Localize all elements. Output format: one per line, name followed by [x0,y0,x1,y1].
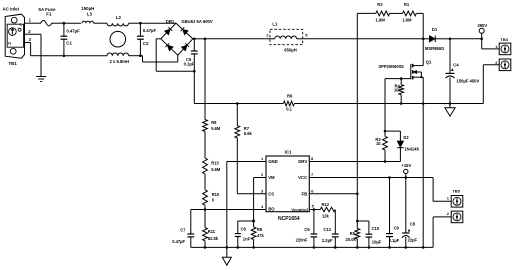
capacitor C4 [446,39,480,104]
svg-text:VM: VM [268,175,275,180]
wire R9 to R13 [204,132,206,159]
node gate network top junction [384,130,387,133]
svg-text:H: H [8,42,11,46]
node Vcontrol junction [313,208,316,211]
resistor R11 [203,210,219,248]
wire FB to compensation [356,194,358,221]
resistor R10 [203,190,220,210]
svg-text:TB5: TB5 [452,189,460,194]
power ground symbol [222,247,231,265]
choke L2 [107,15,129,64]
svg-text:R6: R6 [287,94,293,99]
svg-text:1nF: 1nF [243,237,251,242]
wire bridge minus loop [156,39,194,71]
wire R13 to R10 [204,174,206,190]
wire TB5 pin 1 feed [433,178,451,202]
op-amp IC1 NCP1654 [261,149,315,222]
pin 2 [28,29,31,34]
svg-text:NCP1654: NCP1654 [278,216,300,222]
node rail gnd stem junction [226,246,229,249]
svg-text:R10: R10 [212,192,220,197]
wire shunt rail right [294,103,483,105]
pin 1 [29,17,32,22]
svg-text:TB1: TB1 [9,61,18,66]
svg-text:D1: D1 [432,27,438,32]
svg-text:AC Inlet: AC Inlet [3,7,20,12]
capacitor C2 [137,23,156,56]
svg-text:R5: R5 [350,231,356,236]
resistor R2 [376,2,390,22]
node rail R11 junction [204,246,207,249]
resistor R3 [375,131,387,161]
svg-text:GBU6J 6A 600V: GBU6J 6A 600V [181,19,212,24]
node divider feed junction [204,38,207,41]
svg-text:CS: CS [268,191,274,196]
node C9 junction [388,176,391,179]
wire BO line [191,209,266,211]
wire R1 to switch node [416,13,423,38]
wire Vcontrol pin [309,209,314,211]
capacitor C6 [296,210,318,248]
svg-text:DB1: DB1 [166,19,175,24]
wire FB line [309,193,357,195]
pin 3 [29,37,32,42]
svg-text:Vcontrol: Vcontrol [291,207,308,212]
node BO junction [204,208,207,211]
wire from F1 to node C1 [53,22,64,24]
resistor R9 [203,120,221,132]
svg-text:R13: R13 [211,160,219,165]
svg-text:R2: R2 [377,2,383,7]
wire from C1 to inductor L3 [64,22,81,24]
svg-text:R9: R9 [211,120,217,125]
wire TB3 pin 2 return [483,65,499,104]
svg-text:5.6M: 5.6M [211,167,221,172]
bridge rectifier DB1 [161,19,213,55]
wire FB divider vertical [356,13,358,193]
resistor R13 [203,158,221,174]
node rail R5 junction [356,246,359,249]
diode D1 [423,27,450,51]
svg-text:0.1µF: 0.1µF [184,61,195,66]
resistor R5 [346,221,360,247]
wire DC minus down to shunt rail [194,71,283,103]
node C1 top junction [63,22,66,25]
node VM network junction [252,220,255,223]
svg-text:C7: C7 [180,228,186,233]
svg-text:DRV: DRV [298,159,307,164]
svg-text:5.6M: 5.6M [211,126,221,131]
node rail R8 junction [252,246,255,249]
svg-text:1N4148: 1N4148 [404,147,419,152]
wire bottom ground rail [191,246,433,248]
earth ground [36,77,46,82]
node C2 top junction [139,22,142,25]
wire from L3 to choke L2 [94,22,107,24]
svg-text:FB: FB [301,191,307,196]
node R7 shunt junction [236,102,239,105]
wire gate line [385,78,411,80]
svg-text:C10: C10 [372,226,380,231]
svg-text:MSR860G: MSR860G [425,46,445,51]
connector TB5 [447,189,463,223]
diode D2 [385,131,419,161]
svg-text:C6: C6 [304,227,310,232]
svg-text:R12: R12 [322,202,330,207]
svg-text:C2: C2 [143,41,149,46]
svg-text:R11: R11 [208,229,216,234]
svg-text:L3: L3 [87,11,93,16]
svg-text:0.1µF: 0.1µF [389,238,400,243]
node gnd drop junction [422,246,425,249]
node C5 bottom junction [193,70,196,73]
svg-text:5.6k: 5.6k [244,131,253,136]
svg-text:650µH: 650µH [284,48,296,53]
svg-text:12k: 12k [322,214,330,219]
node R5 C10 junction [356,220,359,223]
node DRV junction [384,160,387,163]
wire bridge plus output [193,38,205,40]
svg-text:C8: C8 [241,227,247,232]
capacitor C8 vcc [402,178,417,248]
node R4 bottom junction [400,102,403,105]
capacitor C1 [61,23,81,56]
wire FB divider top [357,12,376,14]
svg-text:47k: 47k [257,233,265,238]
wire divider feed vertical [204,39,206,120]
svg-text:C1: C1 [66,41,72,46]
capacitor C5 [184,39,198,71]
svg-text:10µF: 10µF [372,240,382,245]
wire output rail [450,38,482,40]
node switch-drain junction [422,38,425,41]
svg-text:IC1: IC1 [285,149,292,154]
node rail C8 junction [237,246,240,249]
resistor R4 [394,79,404,104]
svg-text:R8: R8 [257,227,263,232]
capacitor C10 [357,221,381,247]
wire L line from TB1 pin 1 to fuse F1 [25,22,40,24]
wire N line from TB1 pin 2 [25,34,143,56]
wire VCC line [309,177,433,179]
node C4 bottom junction [449,102,452,105]
power ground at C4 [445,104,455,117]
wire TB5 pin 2 return [433,217,451,248]
node C4 top junction [449,38,452,41]
wire L line to bridge AC1 [140,22,176,24]
node rail C8 vcc junction [405,246,408,249]
node rail C9 junction [388,246,391,249]
svg-text:2.2µF: 2.2µF [322,238,333,243]
svg-text:SPP20N60S5: SPP20N60S5 [378,64,404,69]
connector TB1 AC inlet [3,7,25,66]
svg-text:2 x 6.8mH: 2 x 6.8mH [110,59,130,64]
node 390V [477,23,487,40]
capacitor C8 [235,221,254,247]
node rail C13 junction [334,246,337,249]
svg-text:0.47µF: 0.47µF [172,239,185,244]
svg-text:VCC: VCC [298,175,307,180]
node rail C6 junction [313,246,316,249]
wire earth from TB1 pin 3 [25,43,42,77]
wire R7 to CS pin [237,138,266,194]
svg-text:20.0k: 20.0k [346,237,357,242]
svg-text:C9: C9 [394,226,400,231]
svg-text:C8: C8 [410,222,416,227]
resistor R12 [314,202,335,218]
svg-text:C4: C4 [453,63,459,68]
svg-text:0.1: 0.1 [286,107,292,112]
transistor Q1 [378,39,432,104]
wire GND pin drop [227,162,266,248]
svg-text:0.47µF: 0.47µF [67,29,81,34]
svg-text:GND: GND [268,159,278,164]
node C2 bottom junction [139,54,142,57]
svg-text:22µF: 22µF [408,237,418,242]
node FB junction [356,193,359,196]
node R4 gate junction [400,77,403,80]
node C5 top junction [193,38,196,41]
svg-text:BO: BO [268,207,275,212]
svg-text:C13: C13 [323,227,331,232]
capacitor C13 [322,210,339,248]
resistor R7 [235,104,253,139]
svg-text:D2: D2 [403,135,409,140]
connector TB3 [495,37,511,71]
fuse F1 [39,7,56,26]
wire between R2 and R1 [390,12,403,14]
svg-text:10: 10 [376,141,381,146]
svg-text:Q1: Q1 [426,60,432,65]
resistor R6 shunt [283,94,294,112]
svg-text:82.5k: 82.5k [208,236,219,241]
svg-text:L1: L1 [272,22,278,27]
svg-text:F1: F1 [46,12,52,17]
svg-text:TB3: TB3 [500,37,508,42]
svg-text:0.47µF: 0.47µF [143,28,157,33]
wire DRV line [309,161,385,163]
wire VM pin drop [254,178,266,222]
svg-text:+15V: +15V [401,163,411,168]
wire to TB3 pin 1 [482,39,500,49]
svg-text:150µF 450V: 150µF 450V [456,79,479,84]
resistor R1 [402,2,416,22]
wire from L2 to node C2 top [129,22,141,24]
capacitor C9 [386,178,400,248]
svg-text:L2: L2 [116,15,122,20]
resistor R8 [251,221,264,247]
wire DC plus rail to L1 [205,38,270,40]
node C1 bottom junction [63,54,66,57]
node rail C10 junction [368,246,371,249]
wire gate network vertical [384,79,386,132]
inductor L3 [81,6,94,23]
node Q1 source junction [422,102,425,105]
svg-text:R1: R1 [404,2,410,7]
svg-text:220nF: 220nF [296,237,308,242]
svg-text:1.8M: 1.8M [376,18,386,23]
wire DC plus rail from L1 to switch node [303,38,424,40]
svg-text:1.8M: 1.8M [402,18,412,23]
svg-text:390V: 390V [477,23,487,28]
wire N jog to bridge AC2 [143,55,178,62]
capacitor C7 [172,210,194,248]
node +15V [401,163,411,179]
inductor L1 [266,22,308,53]
wire power gnd drop [422,104,424,248]
